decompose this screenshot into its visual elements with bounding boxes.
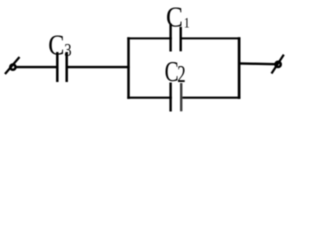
svg-text:3: 3 [64,40,71,61]
label C2 [165,57,186,88]
wire from right node of parallel loop to right terminal [238,62,275,65]
capacitor C3 [57,52,66,82]
terminal right [272,55,284,74]
wire from left terminal to C3 [16,66,58,68]
terminal left [5,57,20,74]
wire loop of parallel branches (box) [127,37,240,99]
label C3 [48,29,71,61]
svg-text:1: 1 [184,14,190,31]
capacitor C2 [171,83,182,112]
wire from C3 to left node of parallel loop [67,66,130,68]
label C1 [166,1,190,33]
svg-text:C: C [166,1,183,33]
svg-text:2: 2 [177,63,185,88]
svg-text:C: C [48,29,64,61]
capacitor C1 [171,24,181,52]
